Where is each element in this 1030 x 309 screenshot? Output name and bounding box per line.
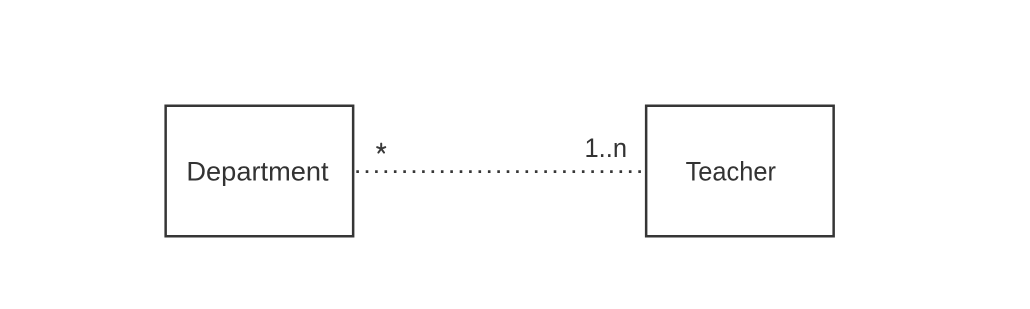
multiplicity 1..n (target) [585, 133, 628, 163]
svg-text:Teacher: Teacher [686, 157, 776, 187]
class box Department [166, 106, 354, 237]
svg-text:Department: Department [186, 157, 329, 187]
label Department [186, 157, 329, 187]
label Teacher [686, 157, 776, 187]
class box Teacher [646, 106, 834, 237]
svg-text:1..n: 1..n [585, 133, 628, 163]
multiplicity * (source) [377, 144, 385, 153]
association dotted connector [356, 170, 645, 173]
